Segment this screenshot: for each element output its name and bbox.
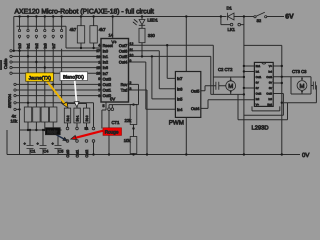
resistor 4k7 (left) [77,26,84,43]
svg-text:7: 7 [98,88,100,92]
svg-text:In7: In7 [177,76,182,81]
junctions 4k7 resistor bottoms [80,47,95,49]
wire 4k7 stubs [81,17,94,49]
input header pins row 2 [18,35,62,37]
svg-text:IN-0: IN-0 [85,115,89,121]
wire L293D right stubs [273,66,291,83]
svg-text:9: 9 [98,77,100,81]
wire cable rows to chip [12,51,101,73]
motor M2 [297,81,307,91]
svg-text:Out2: Out2 [85,150,89,158]
wire Out5 row [129,56,211,99]
svg-text:CT1: CT1 [112,120,121,125]
wire reset feed [66,26,101,48]
id box labels rotated [66,115,89,121]
svg-text:S2: S2 [257,19,262,23]
svg-text:4k7: 4k7 [99,27,106,32]
junctions output rows [141,44,169,58]
svg-text:4: 4 [98,44,100,48]
svg-text:Out5: Out5 [191,88,199,93]
svg-text:0V: 0V [302,152,309,159]
PICAXE right pin numbers [129,42,133,91]
svg-text:In2: In2 [256,98,260,101]
svg-text:IN-1: IN-1 [76,115,80,121]
callout Noir [45,128,60,136]
capacitor C2 motor1 [216,82,219,90]
svg-text:In6: In6 [103,65,108,70]
callout Jaune(TX) [26,73,54,82]
svg-text:3: 3 [129,87,131,91]
wire id-box bottoms [68,123,87,127]
svg-text:Rcv: Rcv [121,82,128,87]
svg-text:In4: In4 [177,107,183,112]
svg-text:In7: In7 [51,43,56,48]
wire PWM gnd [185,117,187,154]
svg-text:Out2: Out2 [103,82,111,87]
junction serial divider [132,103,134,129]
svg-text:Out6: Out6 [119,48,127,53]
svg-text:9: 9 [129,59,131,63]
svg-text:In2: In2 [34,43,39,48]
motor M1 [226,81,236,91]
wire Out7 row [129,45,214,78]
IC PWM driver [175,72,200,118]
wire input header bus [17,25,67,27]
svg-text:Out3: Out3 [103,76,111,81]
wire V+ top rail [14,16,284,18]
svg-text:L293D: L293D [252,125,269,132]
wire divider middle [133,125,135,155]
svg-text:Out0: Out0 [66,150,70,158]
svg-text:Out4: Out4 [266,76,272,79]
svg-text:C2 CT2: C2 CT2 [218,67,233,72]
input header pins row 1 [18,29,62,31]
svg-text:Out7: Out7 [119,43,127,48]
wire chip 0V stub [102,102,106,129]
diode D1 [228,13,234,20]
wire motor1 loop [211,77,244,94]
svg-text:Out1: Out1 [76,150,80,158]
svg-text:Blanc(RX): Blanc(RX) [63,74,84,79]
wire SRF col4 down [93,103,95,128]
TEXTS [15,9,154,16]
switch S2 blade [256,12,265,16]
svg-text:IN-2: IN-2 [66,115,70,121]
PICAXE left pin numbers [96,44,100,98]
left edge mark [0,61,2,70]
svg-text:C4: C4 [44,149,49,153]
svg-text:0V: 0V [256,87,259,90]
svg-text:Out0: Out0 [103,93,112,98]
svg-text:0V: 0V [256,82,259,85]
white wire arrow [74,81,79,108]
svg-text:CT3 C3: CT3 C3 [292,69,307,74]
motor M1 terminals [230,79,232,92]
svg-text:16: 16 [96,72,100,76]
wire PWM out5 to motor cap [201,86,216,91]
svg-text:22k: 22k [125,118,133,123]
svg-text:6: 6 [98,94,100,98]
svg-text:10k: 10k [124,138,132,143]
wire PWM V+ [185,17,187,72]
wire SRF rows [16,84,101,109]
wire left drop to cable row [13,17,15,51]
resistor 4k7 (right) [90,26,97,43]
L293D pin names [256,65,262,107]
junctions ground bus [27,129,59,131]
IC L293D [254,62,273,106]
wire connector col4 to rail [93,142,95,154]
svg-text:In0: In0 [103,48,109,53]
bottom connector labels rotated [66,150,89,158]
svg-text:SRF004: SRF004 [8,94,12,108]
callout Rouge [103,128,122,136]
svg-text:0V: 0V [269,82,272,85]
svg-text:6V: 6V [285,13,294,20]
junctions SRF rows to columns [18,83,54,110]
wire L293D left stubs [244,66,255,88]
svg-text:2: 2 [129,81,131,85]
svg-text:Reset: Reset [103,43,114,48]
wire Out6 row [129,51,176,89]
capacitor C3 motor2 [313,82,315,90]
svg-text:In2: In2 [103,60,108,65]
svg-text:C1: C1 [31,149,36,153]
wire caps [30,130,58,155]
svg-text:18: 18 [96,55,100,59]
wire column verticals lower [20,49,62,155]
wire bottom rail [7,130,300,155]
wire PWM out4 path [201,100,255,109]
wire under L293D [238,94,288,119]
wire ground bus left [20,129,62,131]
svg-text:Out4: Out4 [191,106,200,111]
svg-text:15: 15 [96,66,100,70]
svg-text:10: 10 [129,53,133,57]
resistor 330 [139,28,145,42]
junctions on V+ rail [18,15,245,17]
svg-text:V+: V+ [256,104,260,107]
yellow wire arrow [47,81,68,108]
black wire arrow [56,135,67,141]
id box IN-1 [74,108,80,123]
svg-text:0V: 0V [269,87,272,90]
resistor 22k [130,105,137,125]
svg-text:In0: In0 [17,42,22,48]
svg-text:12: 12 [129,42,133,46]
capacitor C1 [27,146,34,149]
svg-text:D1: D1 [227,6,233,11]
PICAXE right pin names [119,43,128,93]
COMPONENTS [24,26,145,154]
capacitor C4 [40,146,47,149]
wire serial circles to rail [108,111,110,155]
svg-text:Out2: Out2 [256,93,262,96]
red wire arrow [71,131,104,140]
svg-text:11: 11 [129,48,133,52]
svg-text:In3: In3 [268,98,272,101]
svg-text:PWM: PWM [169,120,184,127]
link LK1 terminals [66,16,267,143]
svg-text:In1: In1 [103,54,108,59]
resistor 4x10k row [24,107,31,122]
PICAXE left pin names [103,43,114,98]
svg-text:10k: 10k [11,118,19,123]
wire motor2 cap path [273,86,316,103]
SRF004 connector pins [14,83,16,110]
motor M2 terminals [301,78,303,92]
svg-text:En2: En2 [267,104,272,107]
wire input column drops [20,17,62,30]
svg-text:Out1: Out1 [256,76,262,79]
wire input column continuations [20,38,62,39]
capacitor C5 [55,146,62,149]
svg-text:Noir: Noir [47,130,57,136]
svg-text:Rouge: Rouge [105,130,119,135]
wire Out4 row [129,62,176,109]
wire LED column [141,17,143,57]
svg-text:In1: In1 [256,71,260,74]
svg-text:V+: V+ [269,65,273,68]
cable connector pins [10,50,12,75]
svg-text:In6: In6 [177,86,182,91]
svg-text:14: 14 [109,32,114,37]
svg-text:5: 5 [103,104,105,108]
svg-text:M: M [300,83,305,90]
svg-text:C5: C5 [59,149,64,153]
svg-text:Out3: Out3 [266,93,272,96]
wire L293D top [244,44,282,46]
wire pin14 V+ [112,17,114,39]
svg-text:Out1: Out1 [103,88,111,93]
svg-text:In7: In7 [103,71,108,76]
junctions 0V rail [92,153,283,155]
svg-text:1: 1 [98,60,100,64]
resistor 10k [130,137,137,154]
wire L293D left leg [243,17,245,155]
LED LED1 [133,19,146,25]
svg-text:8: 8 [98,83,100,87]
svg-text:330: 330 [148,33,156,38]
PWM pin names [177,76,183,112]
junctions cable rows to input columns [13,50,55,75]
svg-text:In5: In5 [177,97,182,102]
wire 10k resistor bottoms [28,122,53,130]
input column labels rotated [17,42,56,48]
svg-text:Jaune(TX): Jaune(TX) [29,75,52,81]
svg-text:17: 17 [96,49,100,53]
svg-text:In4: In4 [268,71,272,74]
svg-text:In6: In6 [42,43,47,48]
callout Blanc(RX) [60,72,88,81]
id box IN-0 [83,108,89,123]
svg-text:Txd: Txd [121,88,128,93]
svg-text:In1: In1 [26,43,31,48]
IC PICAXE-18 [101,39,129,103]
wire LK1 loop [221,17,244,25]
id box IN-2 [64,108,70,123]
svg-text:M: M [228,83,233,90]
svg-text:LK1: LK1 [228,27,236,32]
wire L293D right leg [281,45,283,154]
svg-text:LED1: LED1 [147,18,158,23]
svg-text:En1: En1 [256,65,261,68]
svg-text:Cable: Cable [3,58,8,69]
svg-text:Out4: Out4 [119,60,128,65]
wire Rx serial [109,84,139,108]
svg-text:R1: R1 [85,127,89,131]
wire motor2 loop [291,77,311,94]
svg-text:Out5: Out5 [119,54,127,59]
wire Tx serial [129,90,148,155]
wire id-box feed line [62,104,87,109]
svg-text:AXE120 Micro-Robot (PICAXE-18): AXE120 Micro-Robot (PICAXE-18) - full ci… [15,9,154,16]
svg-text:4k7: 4k7 [70,27,77,32]
